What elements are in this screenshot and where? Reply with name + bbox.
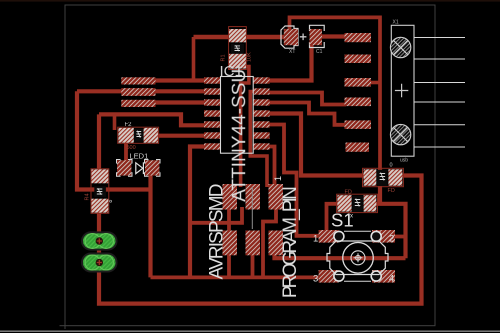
wire IC pad R3 jog to USB row5	[269, 103, 346, 125]
wire SJ bar1 to IC pad L1	[156, 78, 205, 82]
S1 pad BL	[319, 270, 339, 283]
header silk divider	[251, 187, 253, 229]
wire stub down to F2 left pad	[113, 114, 117, 130]
svg-text:F2: F2	[125, 122, 133, 128]
USB connector X1 outline	[391, 25, 414, 156]
resistor R4	[91, 169, 109, 214]
green pad 2	[82, 254, 117, 272]
wire vertical from R1-top corner down to L1 net	[192, 37, 196, 81]
wire IC pad R4 to R2 resistor left pad	[269, 114, 365, 176]
top window edge line	[0, 0, 500, 2]
USB pin lines	[414, 38, 465, 148]
LED1 brackets	[117, 160, 161, 177]
S1 pad TL	[319, 230, 339, 243]
wire top loop XT to right-side vertical	[290, 17, 381, 170]
USB X1 pad 1	[345, 33, 372, 42]
jumper SJ1 pad bar1	[121, 77, 155, 84]
S1 body outline	[327, 241, 388, 275]
USB hole bottom	[390, 124, 410, 144]
S1 pad BR	[372, 270, 395, 283]
svg-text:R1: R1	[221, 54, 227, 61]
USB X1 pad 3	[345, 78, 372, 87]
wire under R2 down to y204	[378, 168, 382, 204]
green pad 1	[82, 232, 117, 249]
wire R1 top / XT left horizontal	[194, 35, 285, 40]
wire header A2 jog left	[190, 207, 242, 223]
frame origin ticks bottom-left	[60, 325, 66, 327]
header pad B3	[269, 231, 284, 256]
header pad A3	[269, 184, 284, 210]
svg-text:1: 1	[313, 234, 318, 245]
wire stub usb row3 to vertical	[371, 81, 380, 85]
svg-text:C1: C1	[316, 49, 323, 55]
IC1 right pads	[253, 77, 269, 149]
wire B3 elbow and S1 crossing horizontal	[275, 252, 406, 258]
S1 pad TR	[372, 230, 395, 243]
wire R2 right pad elbow, right-side vertical, bottom horizontal, green pads vertical up to R4	[99, 176, 422, 304]
wire R3 left pad corner down to S1 TL	[327, 204, 340, 232]
wire LED1 right pad down to long horizontal	[148, 172, 152, 277]
wire header B2 down	[251, 253, 255, 277]
wire R3 right pad to vertical and down to crossing	[376, 204, 406, 258]
tick mark near R4	[110, 200, 112, 202]
header PROGRAM_PIN pad A1	[223, 184, 238, 210]
svg-text:ATTINY44-SSU: ATTINY44-SSU	[229, 69, 250, 202]
svg-text:R4: R4	[85, 193, 91, 200]
wire IC pad R7 down to header A3	[269, 147, 275, 187]
LED1 symbol	[136, 162, 144, 174]
IC1 body outline	[221, 77, 254, 154]
svg-text:1: 1	[273, 176, 283, 181]
header pad A2	[246, 184, 261, 210]
fuse F2	[118, 127, 159, 143]
crystal XT	[281, 26, 298, 48]
svg-text:500: 500	[127, 145, 136, 151]
wire F2 left pad down to LED1 left pad	[124, 141, 128, 162]
wire SJ bar2 horizontal to IC pad L2	[77, 89, 204, 93]
wire C1 right to USB row1	[321, 34, 346, 38]
USB X1 pad 5	[345, 120, 372, 128]
origin cross between XT and C1	[300, 34, 307, 41]
USB X1 pad 2	[345, 55, 372, 64]
svg-text:x: x	[350, 214, 353, 220]
wire R1 bottom pad elbow under IC body down to header A1	[241, 67, 249, 188]
svg-text:2: 2	[389, 234, 394, 245]
wire C1 bottom down and left to IC pad R1	[269, 45, 312, 81]
USB origin cross	[395, 84, 408, 97]
resistor R1	[229, 27, 247, 70]
svg-text:3: 3	[313, 274, 318, 285]
wire SJ bar3 to IC pad L3	[156, 100, 205, 104]
svg-text:X1: X1	[393, 20, 399, 26]
LED1 right pad	[145, 160, 159, 175]
wire IC pad R5 to S1 TL pad	[269, 125, 320, 236]
bottom window edge line	[0, 330, 500, 332]
wire header A1 through B1 down to long horizontal	[227, 207, 231, 277]
frame (dimension) rectangle	[65, 5, 435, 326]
svg-text:LED1: LED1	[130, 152, 149, 161]
svg-text:PROGRAM_PIN: PROGRAM_PIN	[280, 186, 301, 298]
wire F2 right pad to IC pad L6	[157, 134, 204, 138]
USB X1 pad 4	[345, 98, 372, 107]
svg-text:usb: usb	[400, 158, 408, 164]
resistor R2	[363, 168, 404, 186]
wire S1 TR stub	[394, 235, 406, 239]
S1 leg rings	[334, 231, 381, 281]
wire long horizontal y277 to S1 BL pad	[151, 275, 321, 279]
svg-text:AVRISPSMD: AVRISPSMD	[207, 184, 228, 280]
resistor R3	[337, 194, 378, 212]
LED1 left pad	[117, 160, 131, 175]
header pad B1	[223, 231, 238, 256]
IC1 left pads	[204, 77, 220, 149]
svg-text:XT: XT	[289, 49, 295, 55]
svg-text:FD: FD	[388, 188, 395, 194]
S1 button circles	[343, 242, 374, 273]
wire left vertical down and over to LED right net	[77, 91, 151, 189]
svg-text:FD: FD	[345, 190, 352, 196]
S1 silk top/bottom lines	[344, 230, 371, 232]
svg-text:10K: 10K	[247, 52, 253, 62]
USB X1 pad 6	[346, 143, 370, 152]
wire from IC pad R2 left under body down to header A3	[250, 92, 267, 188]
wire header A3 down left down to long horizontal	[263, 207, 276, 277]
capacitor C1	[310, 25, 325, 47]
svg-text:4: 4	[389, 274, 394, 285]
jumper SJ1 pad bar2	[121, 88, 155, 96]
svg-text:0: 0	[390, 163, 393, 169]
jumper SJ1 pad bar3	[121, 100, 155, 107]
USB hole top	[390, 37, 410, 57]
wire R4 top vertical	[97, 114, 101, 171]
wire IC pad L7 to vertical down	[190, 147, 204, 278]
wire long horizontal to jog to IC pad L5	[99, 114, 204, 125]
svg-text:S1: S1	[331, 209, 354, 230]
wire IC pad R2 jog to USB row4	[269, 93, 346, 105]
header pad B2	[246, 231, 261, 256]
switch S1	[313, 230, 395, 285]
